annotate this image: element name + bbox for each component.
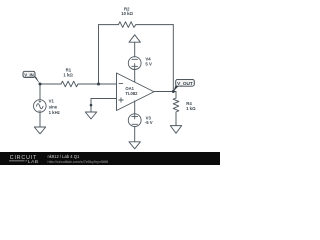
wire V1 to ground	[39, 112, 41, 127]
resistor R2	[118, 22, 135, 28]
wire op-amp V- pin to V3	[134, 101, 136, 114]
svg-text:LAB: LAB	[28, 159, 39, 165]
junction dot at minus input node	[97, 83, 100, 86]
wire V4 to op-amp V+ pin	[134, 69, 136, 83]
svg-text:-5 V: -5 V	[145, 120, 153, 125]
voltage source V1 sine	[34, 100, 47, 113]
resistor R1	[61, 81, 78, 87]
wire R1 to op-amp minus input	[78, 83, 117, 85]
svg-text:10 kΩ: 10 kΩ	[121, 11, 133, 16]
net flag V_IN	[23, 71, 40, 84]
junction dot at output node	[172, 90, 175, 93]
ground below R4	[170, 126, 181, 134]
V3 minus mark	[132, 123, 138, 125]
V4 minus mark	[132, 58, 138, 60]
svg-text:htto://circuitlab.com/c/7e5ky9: htto://circuitlab.com/c/7e5ky9ryv56f8	[48, 160, 109, 164]
op-amp plus input mark	[119, 98, 123, 102]
svg-text:TL082: TL082	[125, 91, 138, 96]
wire V3 to ground	[134, 127, 136, 142]
V3 plus mark	[132, 114, 138, 119]
wire output node down to R4	[175, 92, 177, 99]
wire feedback left vertical	[98, 25, 100, 84]
svg-text:1 kΩ: 1 kΩ	[186, 106, 196, 111]
op-amp OA1 triangle	[117, 73, 155, 111]
wire feedback right vertical	[172, 25, 174, 92]
net flag V_OUT	[173, 79, 194, 91]
ground below V1	[34, 127, 45, 134]
voltage source V4	[128, 57, 141, 70]
svg-text:1 kHz: 1 kHz	[49, 110, 60, 115]
junction dot on plus-input ground wire	[90, 104, 93, 107]
op-amp minus input mark	[119, 82, 123, 84]
svg-text:R4: R4	[186, 101, 192, 106]
V1 plus mark	[39, 101, 41, 103]
wire op-amp plus input	[91, 99, 117, 113]
ground below plus input	[85, 112, 96, 119]
wire V_IN node to R1	[40, 83, 61, 85]
svg-text:V1: V1	[49, 98, 55, 103]
voltage source V3	[128, 114, 141, 127]
wire feedback top left	[99, 24, 119, 26]
svg-text:V_IN: V_IN	[24, 72, 34, 77]
sine symbol in V1	[36, 104, 43, 109]
wire V_IN node down to V1	[39, 84, 41, 100]
svg-text:nk912 / Lab 4 Q1: nk912 / Lab 4 Q1	[48, 154, 80, 159]
resistor R4	[173, 98, 179, 126]
footer black bar	[0, 152, 220, 165]
ground above V4 (flipped)	[129, 35, 140, 42]
V4 plus mark	[132, 64, 138, 70]
ground below V3	[129, 142, 140, 149]
svg-text:sine: sine	[49, 104, 58, 109]
V1 minus mark	[39, 110, 41, 112]
svg-text:5 V: 5 V	[145, 62, 152, 67]
wire feedback top right	[136, 24, 174, 26]
svg-text:1 kΩ: 1 kΩ	[63, 73, 73, 78]
wire op-amp output	[154, 91, 176, 93]
junction dot at V_IN node	[39, 83, 42, 86]
svg-text:V_OUT: V_OUT	[177, 81, 193, 86]
CircuitLab logo: line	[9, 160, 27, 162]
wire ground to V4	[134, 42, 136, 57]
